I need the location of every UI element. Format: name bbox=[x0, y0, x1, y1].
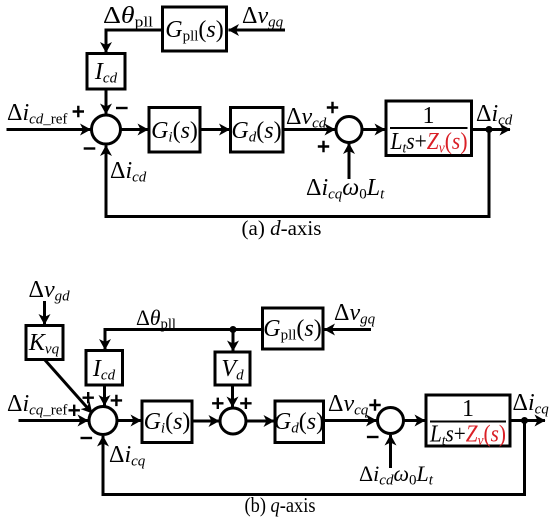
svg-text:Δvgq: Δvgq bbox=[242, 3, 284, 31]
svg-text:Δθpll: Δθpll bbox=[103, 3, 153, 31]
svg-text:Δicq: Δicq bbox=[513, 390, 550, 418]
svg-text:Δθpll: Δθpll bbox=[136, 305, 176, 333]
svg-text:Δicd: Δicd bbox=[110, 158, 147, 186]
svg-text:1: 1 bbox=[423, 103, 435, 129]
svg-text:Δvgq: Δvgq bbox=[334, 300, 376, 328]
svg-text:(b) q-axis: (b) q-axis bbox=[245, 493, 316, 517]
svg-text:Δvcd: Δvcd bbox=[286, 104, 327, 132]
svg-text:1: 1 bbox=[462, 396, 474, 422]
svg-text:Δicd_ref: Δicd_ref bbox=[7, 100, 67, 128]
svg-text:Δicdω0Lt: Δicdω0Lt bbox=[359, 461, 434, 489]
svg-text:Δvgd: Δvgd bbox=[29, 277, 71, 305]
svg-text:Δicq: Δicq bbox=[109, 442, 146, 470]
svg-text:Gi(s): Gi(s) bbox=[144, 409, 191, 437]
svg-text:Lts+Zv(s): Lts+Zv(s) bbox=[429, 422, 506, 450]
svg-text:Δicqω0Lt: Δicqω0Lt bbox=[306, 175, 385, 203]
svg-text:Gi(s): Gi(s) bbox=[151, 118, 198, 146]
svg-text:Δicd: Δicd bbox=[476, 101, 513, 129]
svg-text:Gd(s): Gd(s) bbox=[274, 409, 324, 437]
svg-text:(a) d-axis: (a) d-axis bbox=[242, 216, 322, 240]
svg-text:Lts+Zv(s): Lts+Zv(s) bbox=[390, 129, 468, 157]
svg-text:Gd(s): Gd(s) bbox=[231, 118, 281, 146]
svg-text:Δvcq: Δvcq bbox=[328, 391, 369, 419]
svg-text:Δicq_ref: Δicq_ref bbox=[7, 391, 67, 419]
